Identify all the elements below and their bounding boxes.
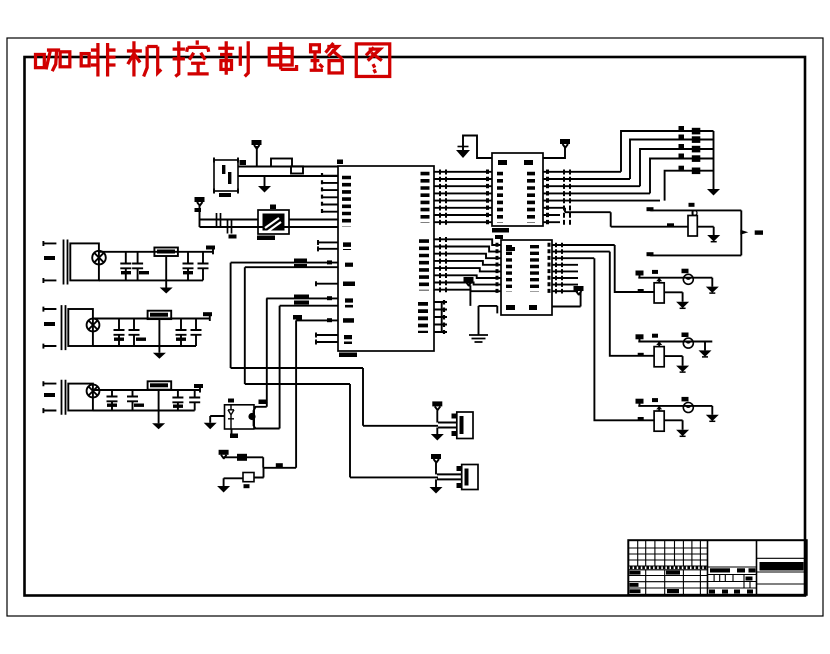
U8 emitter wire xyxy=(254,426,280,428)
ground d2 below xyxy=(676,366,689,372)
Q3 base wire xyxy=(224,478,243,486)
title char 制 xyxy=(218,41,248,76)
capacitor C6 xyxy=(129,319,140,347)
wire bottom rail row2 xyxy=(93,345,196,347)
resistor R1 xyxy=(654,283,664,303)
net flag d3 xyxy=(636,399,644,404)
bundle pin ticks xyxy=(327,260,332,264)
wire feed B xyxy=(610,252,654,356)
bridge rectifier B3 xyxy=(87,385,100,398)
ground d2 right xyxy=(699,350,712,357)
U2 right wires xyxy=(543,172,660,201)
wire reset rail 1 xyxy=(238,166,338,168)
transistor driver Q3 xyxy=(217,450,296,493)
transformer T2 bars xyxy=(62,305,66,350)
tick on d3 left wire xyxy=(638,417,644,420)
ground Q3 xyxy=(217,486,230,493)
capacitor C7 xyxy=(176,319,187,347)
grid h-lines bottom xyxy=(628,570,707,588)
wire M2 to ground xyxy=(704,342,706,351)
U8 left wire and ground xyxy=(210,416,224,423)
U1 left pin labels WR xyxy=(343,318,354,323)
key switch S2 xyxy=(679,126,685,130)
J2 label xyxy=(44,322,55,326)
drawing name text xyxy=(760,562,804,571)
ground d1 right xyxy=(706,287,719,294)
U1 left pin labels P1.0-P1.7 xyxy=(342,176,351,227)
bundle wires MCU-left to bottom xyxy=(231,259,438,478)
ground d3 below xyxy=(676,430,689,436)
K2 box xyxy=(462,465,478,490)
wire feed C xyxy=(594,258,653,420)
U1 right pin labels P0 xyxy=(421,172,430,223)
S1 label xyxy=(219,193,231,197)
U3 top/bottom labels xyxy=(506,247,515,251)
Y1 label XTAL xyxy=(257,236,275,241)
wire top rail d2 xyxy=(638,341,712,343)
U2 left pin labels xyxy=(497,172,503,223)
U8 bottom tick xyxy=(231,429,233,435)
ground K2 xyxy=(435,479,437,487)
key column rail xyxy=(713,131,715,189)
U1 box xyxy=(338,166,434,351)
U8 collector wire xyxy=(254,403,267,410)
capacitor C1 xyxy=(120,252,131,281)
wire U2 pin6 to Q4 base xyxy=(543,208,688,227)
relay connector K1 xyxy=(431,401,473,440)
grid v-lines bottom xyxy=(646,570,701,595)
buzzer circuit right xyxy=(543,203,763,256)
U3 right wires xyxy=(552,245,615,291)
K1 tabs xyxy=(452,414,458,419)
wire Q4 collector to ground xyxy=(697,227,713,235)
VCC U2 top-right xyxy=(543,147,565,158)
U2 pin labels OE/VCC top xyxy=(498,160,507,165)
key row wires risers xyxy=(621,131,714,201)
grid v-lines top xyxy=(638,540,701,566)
title char 啡 xyxy=(81,43,115,76)
tick on base wire xyxy=(667,223,674,227)
U8 box xyxy=(225,405,255,429)
connector J3 stubs xyxy=(43,381,56,413)
VCC U3 left xyxy=(464,277,474,282)
crystal circuit xyxy=(195,197,339,240)
optocoupler U8 xyxy=(204,399,280,439)
diode in U8 xyxy=(228,405,234,429)
driver feeds from U3 xyxy=(594,245,653,420)
power row 3 xyxy=(43,380,203,430)
power row 2 xyxy=(43,305,212,359)
ground reset xyxy=(264,176,266,186)
diode D1 on rail xyxy=(237,454,247,461)
wire left input d1 xyxy=(664,292,682,302)
bundle labels xyxy=(294,259,307,264)
transistor in U8 xyxy=(253,410,255,426)
U3 right junction ticks xyxy=(555,243,557,294)
wire feed A xyxy=(615,245,654,292)
mid section v-cells xyxy=(714,575,750,589)
U1 pin stubs RXD TXD xyxy=(317,240,338,251)
key switch S4 xyxy=(679,144,685,148)
U1 label 89C51 xyxy=(339,353,357,358)
U1 right pin labels ALE/PSEN xyxy=(418,302,428,333)
K1 pins xyxy=(438,423,457,428)
wire xtal rail1 right xyxy=(289,219,338,221)
wire bundle 2 xyxy=(245,267,438,477)
title char 控 xyxy=(173,40,209,76)
node arrow right rail xyxy=(740,230,748,235)
connector J1 stubs xyxy=(43,241,56,283)
wire bottom rail row1 xyxy=(99,279,203,281)
wire bundle 1 xyxy=(231,263,438,426)
bus junction ticks left xyxy=(439,170,441,225)
capacitor C2 xyxy=(132,252,143,281)
wire VCC down xyxy=(199,206,201,227)
U1 left pin labels INT xyxy=(345,263,353,269)
title text 咖啡机控制电路图 (drawn strokes) xyxy=(36,40,390,76)
connector J2 stubs xyxy=(43,307,56,349)
U1 left pin labels RXD TXD xyxy=(343,242,351,250)
wire M3 to ground xyxy=(711,406,713,415)
driver circuit 3 xyxy=(636,397,719,436)
K1 box xyxy=(457,412,473,439)
mid section h-line xyxy=(708,566,757,568)
tick on d2 left wire xyxy=(638,353,644,356)
grid h-lines top xyxy=(628,548,707,566)
key switch S3 xyxy=(679,135,685,139)
regulator U4 7805 xyxy=(154,248,178,257)
motor M3 xyxy=(683,403,693,413)
capacitor C14 xyxy=(228,221,232,234)
net flag d1 xyxy=(636,271,644,276)
VCC Q3 xyxy=(219,450,229,455)
title char 咖 xyxy=(36,50,70,71)
wire buzzer right rail xyxy=(740,210,742,255)
wire top rail d1 xyxy=(638,277,712,279)
U2 box xyxy=(492,153,543,226)
wire buzzer bottom rail xyxy=(650,254,741,256)
capacitor C9 xyxy=(107,390,118,411)
mid section row lines xyxy=(708,575,757,589)
U8 top tick xyxy=(228,399,234,403)
grid text band xyxy=(630,566,707,569)
wire top rail row2 xyxy=(93,318,210,320)
U3 box xyxy=(501,240,552,315)
U2 label xyxy=(492,228,509,233)
wire top rail row3 xyxy=(93,389,200,391)
transformer T1 bars xyxy=(64,240,68,285)
U1 stub T0 xyxy=(315,281,338,286)
ground K1 xyxy=(436,428,438,435)
wire left input d2 xyxy=(664,356,682,366)
wire reset rail 2 xyxy=(238,175,338,177)
C14 label xyxy=(229,235,237,239)
key ladder top right xyxy=(621,126,720,201)
U3 OE wire and ground xyxy=(479,306,498,335)
capacitor C10 xyxy=(127,390,138,411)
J3 label xyxy=(44,393,55,397)
title char 电 xyxy=(269,42,296,69)
wire top rail d3 xyxy=(638,405,712,407)
U3 right pin labels xyxy=(530,245,539,292)
node +5V row2 xyxy=(209,316,211,321)
transistor Q4 xyxy=(688,216,697,237)
transformer T3 bars xyxy=(62,380,66,415)
K2 pins xyxy=(437,474,462,479)
capacitor C8 xyxy=(191,319,202,347)
VCC K2 xyxy=(431,454,441,459)
driver circuit 2 xyxy=(636,333,713,373)
wire xtal rail 1 xyxy=(200,219,259,221)
wire bundle 4 xyxy=(280,306,338,429)
U1 left pin labels XTAL xyxy=(344,335,352,344)
capacitor C3 xyxy=(183,252,194,281)
node VCC reset xyxy=(252,140,262,145)
TITLEBLOCK xyxy=(628,540,806,595)
wire VCC to RST rail xyxy=(256,146,258,167)
reset block S1 xyxy=(214,140,343,197)
relay connector K2 xyxy=(430,454,479,494)
capacitor C5 xyxy=(114,319,125,347)
U1 left pin labels T0 xyxy=(343,282,355,287)
U1 right pin labels P2 xyxy=(419,239,429,290)
node VCC crystal xyxy=(195,197,205,202)
Q3 label xyxy=(244,484,250,488)
U3 bottom right VCC xyxy=(552,293,581,307)
mid section labels xyxy=(710,568,730,572)
node tick MCU corner xyxy=(337,160,343,165)
reset box S1 xyxy=(214,160,238,191)
U1 left pin labels T1 xyxy=(345,298,353,307)
K2 tabs xyxy=(457,466,463,471)
wire top rail row1 xyxy=(99,251,213,253)
transistor Q3 box xyxy=(243,473,254,482)
wire bundle 5 xyxy=(296,320,338,467)
grid cell texts xyxy=(630,571,641,575)
bridge rectifier B1 xyxy=(92,251,106,265)
wire VCC to diode rail xyxy=(224,456,264,459)
resistor R3 xyxy=(654,411,664,431)
border inner frame xyxy=(25,57,806,596)
bus P2 staircase U1 to U3 xyxy=(434,239,501,291)
ground below U6 xyxy=(158,390,160,424)
title char 图 xyxy=(356,44,389,77)
title block divider mid/right xyxy=(756,540,758,595)
resistor R11 step xyxy=(291,166,303,173)
latch U2 74LS373 xyxy=(434,136,660,233)
net flag d2 xyxy=(636,334,644,339)
capacitor C11 xyxy=(172,390,183,411)
power row 1 xyxy=(43,240,215,294)
U1 stubs XTAL1 XTAL2 xyxy=(315,333,338,345)
ground below U4 xyxy=(165,256,167,288)
latch U3 xyxy=(434,235,615,342)
transformer T2 box xyxy=(68,309,93,346)
resistor R10 step xyxy=(271,159,292,167)
wire M1 to ground xyxy=(711,278,713,287)
U2 right junction ticks xyxy=(563,170,565,225)
title char 机 xyxy=(127,41,161,76)
crystal Y1 xyxy=(258,210,289,234)
right section rows xyxy=(757,558,807,584)
ground below U5 xyxy=(158,319,160,353)
wire to feed5 xyxy=(263,457,296,468)
U3 left pin labels xyxy=(506,245,512,292)
capacitor C13 xyxy=(217,213,221,226)
tick on d1 left wire xyxy=(638,289,644,292)
regulator U5 7805 xyxy=(148,311,172,319)
U3 label xyxy=(495,235,503,239)
wire left input d3 xyxy=(664,420,682,430)
transformer T1 box xyxy=(70,243,99,280)
resistor R2 xyxy=(654,347,664,367)
node +5V row1 xyxy=(212,249,214,254)
wire U2 pin8 stub xyxy=(543,221,560,223)
wire buzzer top rail xyxy=(650,209,741,211)
wire U2 pin7 stub xyxy=(543,214,560,216)
staircase junction ticks xyxy=(439,237,441,292)
wire bottom rail row3 xyxy=(93,410,195,412)
key switch S5 xyxy=(679,154,685,158)
transformer T3 box xyxy=(68,384,93,411)
title char 路 xyxy=(310,43,343,73)
key switch S6 xyxy=(679,166,685,170)
Y1 tick xyxy=(270,205,276,210)
U2 right pin labels xyxy=(527,172,535,223)
driver circuit 1 xyxy=(636,269,719,309)
MCU U1 89C51 xyxy=(315,166,447,357)
bus P0 wires U1 to U2 xyxy=(434,172,492,222)
U1 right bottom stubs xyxy=(434,302,447,332)
title block grid xyxy=(628,540,806,595)
regulator U6 7805 xyxy=(148,381,172,389)
ground d3 right xyxy=(706,415,719,422)
ground d1 below xyxy=(676,302,689,308)
VCC K1 xyxy=(432,401,442,406)
U1 left pin stubs P1 xyxy=(321,176,338,212)
wire bundle 3 xyxy=(266,298,338,403)
motor M1 xyxy=(683,274,693,284)
title block outline xyxy=(628,540,806,595)
bridge rectifier B2 xyxy=(87,319,100,332)
ground U2 top-left xyxy=(463,136,492,159)
motor M2 xyxy=(683,338,693,348)
mid bottom texts xyxy=(709,590,715,594)
wire xtal rail 2 xyxy=(200,226,339,228)
J1 label xyxy=(44,256,55,260)
capacitor C4 xyxy=(198,252,209,281)
node +12V row3 xyxy=(199,388,201,393)
ground key ladder xyxy=(707,189,720,196)
title block divider left/mid xyxy=(707,540,709,595)
capacitor C12 xyxy=(189,390,200,411)
